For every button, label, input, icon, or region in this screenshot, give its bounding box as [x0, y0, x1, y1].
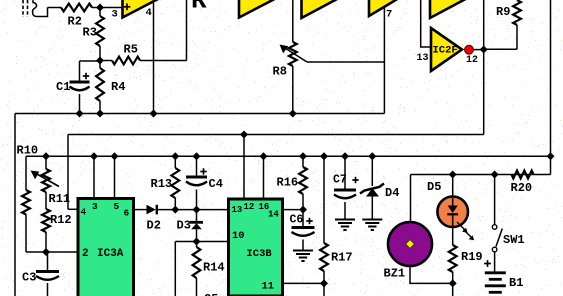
- capacitor C6: [292, 210, 315, 251]
- svg-text:R17: R17: [331, 251, 353, 265]
- node R3-R4-R5 junction: [96, 57, 104, 65]
- label R17: [331, 251, 353, 265]
- plus C1: [83, 73, 89, 79]
- resistor R10: [22, 156, 30, 252]
- node bus3-R13: [171, 152, 179, 160]
- svg-text:2: 2: [82, 248, 89, 260]
- svg-text:R5: R5: [124, 43, 138, 57]
- left rail wire: [14, 114, 16, 296]
- wire row to BZ1: [410, 175, 412, 224]
- label IC3B: [247, 248, 273, 260]
- wire C1 to junction: [80, 60, 101, 62]
- node R12-C3: [42, 248, 50, 256]
- node C4-D3: [193, 206, 201, 214]
- label C5 (cropped): [204, 292, 218, 296]
- node bus3-right rail: [547, 152, 555, 160]
- pin 4 label IC3A: [81, 207, 87, 218]
- svg-text:4: 4: [146, 7, 152, 19]
- pin 2 label IC3A: [82, 248, 89, 260]
- svg-text:IC3B: IC3B: [247, 248, 273, 260]
- svg-text:C5: C5: [204, 292, 218, 296]
- label IC3A: [97, 248, 124, 260]
- bus2 left drop: [67, 135, 69, 210]
- svg-text:7: 7: [386, 9, 392, 21]
- pin 11 label IC3B: [262, 281, 275, 293]
- svg-text:12: 12: [466, 55, 478, 66]
- wire left drop to bottom: [174, 242, 176, 296]
- op-amp IC1A (cropped): [123, 0, 160, 18]
- node R19 bottom: [449, 279, 457, 287]
- svg-text:SW1: SW1: [503, 233, 525, 247]
- wire pin16 stub: [263, 156, 265, 199]
- svg-text:5: 5: [114, 201, 120, 212]
- resistor R17: [320, 156, 328, 283]
- resistor R3: [96, 8, 104, 61]
- node row-D5: [449, 171, 457, 179]
- label R2: [68, 15, 82, 29]
- wire D2 to IC3B pin13: [157, 209, 229, 211]
- svg-text:13: 13: [417, 53, 429, 64]
- label R13: [151, 177, 173, 191]
- pin 12 label IC3B: [244, 202, 255, 212]
- node row-SW1: [491, 171, 499, 179]
- label R14: [203, 261, 225, 275]
- resistor R8 lead: [292, 0, 294, 42]
- svg-text:R12: R12: [50, 213, 72, 227]
- svg-text:10: 10: [232, 230, 245, 242]
- label R12: [50, 213, 72, 227]
- ground C7: [335, 220, 355, 231]
- R11 wiper arrow: [31, 171, 60, 187]
- label D4: [385, 186, 399, 200]
- label R8: [273, 65, 287, 79]
- node bus2-pin12 stub: [240, 131, 248, 139]
- svg-text:R19: R19: [461, 250, 483, 264]
- resistor R20: [512, 171, 534, 179]
- resistor R13: [171, 156, 179, 209]
- resistor R8: [289, 42, 297, 66]
- label R5: [124, 43, 138, 57]
- capacitor C1: [70, 61, 90, 114]
- svg-text:R2: R2: [68, 15, 82, 29]
- output bubble (red): [465, 45, 474, 54]
- wire pin5 stub: [114, 156, 116, 198]
- LED arrows: [457, 222, 474, 240]
- wire bus2 into IC3A pin4: [68, 208, 78, 210]
- wire into IC2F pin13: [421, 0, 431, 47]
- plus B1: [484, 260, 491, 267]
- node R16-C6: [299, 206, 307, 214]
- node C1-bus1: [76, 110, 84, 118]
- wire IC1A output down to bus1: [153, 3, 155, 114]
- resistor R19: [449, 227, 457, 283]
- op-amp IC1D (cropped): [369, 0, 399, 16]
- node bus3-pin5: [111, 152, 119, 160]
- resistor R5: [100, 57, 140, 65]
- node R17-pin11: [320, 279, 328, 287]
- label R3: [83, 26, 97, 40]
- label C3: [22, 271, 36, 285]
- label C7: [333, 174, 347, 187]
- node bus3-C7: [341, 152, 349, 160]
- label C4: [209, 177, 223, 191]
- capacitor C7: [334, 156, 356, 219]
- svg-text:D3: D3: [177, 219, 191, 233]
- label R19: [461, 250, 483, 264]
- capacitor C4: [186, 156, 207, 209]
- wire pin3 stub: [93, 156, 95, 198]
- label D3: [177, 219, 191, 233]
- wire bubble to node: [473, 49, 484, 51]
- pin 16 label IC3B: [259, 202, 270, 212]
- diode D3: [190, 210, 203, 242]
- label SW1: [503, 233, 525, 247]
- pin 5 label IC3A: [114, 201, 120, 212]
- wire mic to R2: [48, 7, 62, 9]
- wire pin14 to node: [283, 209, 304, 211]
- bus3 wire: [26, 155, 551, 157]
- node D3-R14: [193, 238, 201, 246]
- wire IC1D output down: [383, 7, 385, 114]
- resistor R12: [42, 192, 50, 252]
- svg-text:R14: R14: [203, 261, 225, 275]
- wire pin10 row: [175, 241, 228, 243]
- svg-text:4: 4: [81, 207, 87, 218]
- node bus3-C4: [193, 152, 201, 160]
- node bus3-R17: [320, 152, 328, 160]
- wire BZ1 bottom: [410, 266, 453, 283]
- svg-text:R4: R4: [111, 80, 125, 94]
- right rail wire: [550, 0, 552, 175]
- svg-text:R3: R3: [83, 26, 97, 40]
- letter R of cropped title: [191, 0, 207, 16]
- pot R11: [42, 156, 50, 192]
- svg-text:C1: C1: [56, 80, 70, 94]
- label R9: [496, 5, 510, 19]
- svg-text:B1: B1: [509, 276, 523, 290]
- plus C4: [200, 168, 206, 174]
- op-amp IC1B (cropped): [239, 0, 276, 18]
- wire pin6 to D2: [134, 209, 147, 211]
- zener D4: [360, 156, 384, 219]
- node R8-bus1: [289, 110, 297, 118]
- bus1 wire: [15, 113, 384, 115]
- wire SW1 to B1: [494, 252, 496, 272]
- svg-text:12: 12: [244, 202, 255, 212]
- label R4: [111, 80, 125, 94]
- label C1: [56, 80, 70, 94]
- microphone MIC1 (cut off at top): [23, 0, 48, 17]
- node bus3-pin16: [260, 152, 268, 160]
- pin 7 label: [386, 9, 392, 21]
- wire R5 to feedback: [140, 60, 187, 62]
- pin 10 label IC3B: [232, 230, 245, 242]
- label C6: [290, 214, 304, 227]
- node IC2F output: [480, 46, 488, 54]
- inverter IC2F: [431, 28, 462, 71]
- resistor R2: [61, 4, 92, 12]
- pin 6 label IC3A: [124, 208, 130, 219]
- pin 13 label IC3B: [232, 205, 243, 215]
- svg-text:11: 11: [262, 281, 275, 293]
- wire feedback vertical: [186, 0, 188, 61]
- svg-text:D2: D2: [147, 219, 161, 233]
- capacitor C3: [36, 252, 59, 296]
- svg-text:R13: R13: [151, 177, 173, 191]
- label B1: [509, 276, 523, 290]
- resistor R14: [193, 242, 201, 296]
- svg-text:R10: R10: [17, 144, 39, 158]
- svg-text:R20: R20: [511, 181, 533, 195]
- wire R8 to bus1: [292, 66, 294, 114]
- svg-text:R8: R8: [273, 65, 287, 79]
- battery B1: [485, 273, 506, 293]
- ground D4: [362, 220, 382, 231]
- label R11: [49, 192, 71, 206]
- resistor R9: [513, 0, 521, 49]
- wire supply row: [411, 174, 551, 176]
- svg-text:D5: D5: [427, 180, 441, 194]
- IC IC3A: [78, 199, 134, 296]
- buzzer BZ1: [388, 222, 432, 266]
- svg-text:BZ1: BZ1: [384, 267, 406, 281]
- wire row to SW1: [494, 175, 496, 225]
- node bus3-D4: [368, 152, 376, 160]
- resistor R16: [299, 156, 307, 209]
- pin 14 label IC3B: [268, 210, 279, 220]
- resistor R4: [96, 61, 104, 114]
- label D2: [147, 219, 161, 233]
- label R10: [17, 144, 39, 158]
- wire R8 wiper to IC1D output: [307, 61, 384, 63]
- svg-text:6: 6: [124, 208, 130, 219]
- svg-text:R16: R16: [277, 176, 299, 190]
- pin 13 label: [417, 53, 429, 64]
- wire node row pin2: [26, 251, 78, 253]
- node bus3-R11: [42, 152, 50, 160]
- node R4-bus1: [96, 110, 104, 118]
- op-amp IC2E (cropped): [430, 0, 467, 18]
- node bus3-R16: [299, 152, 307, 160]
- pin 3 label IC3A: [92, 201, 98, 212]
- BZ1 center dot: [406, 240, 415, 249]
- svg-text:C7: C7: [333, 174, 347, 187]
- svg-text:D4: D4: [385, 186, 399, 200]
- IC IC3B: [229, 199, 283, 296]
- svg-text:3: 3: [112, 9, 118, 21]
- bus2 wire: [68, 134, 484, 136]
- svg-text:14: 14: [268, 210, 279, 220]
- pin 12 label: [466, 55, 478, 66]
- wire R2 to opamp pin3: [92, 7, 123, 9]
- LED D5: [437, 197, 468, 228]
- label R20: [511, 181, 533, 195]
- svg-text:R11: R11: [49, 192, 71, 206]
- label D5: [427, 180, 441, 194]
- svg-text:R: R: [191, 0, 207, 16]
- svg-text:C3: C3: [22, 271, 36, 285]
- switch SW1: [492, 225, 502, 252]
- wire pin12 stub: [243, 135, 245, 200]
- svg-text:IC2F: IC2F: [433, 45, 458, 57]
- plus sign IC1A: [124, 3, 131, 10]
- wire IC2F node vertical: [483, 0, 485, 135]
- svg-text:IC3A: IC3A: [97, 248, 124, 260]
- svg-text:13: 13: [232, 205, 243, 215]
- R8 wiper arrow: [280, 45, 308, 63]
- svg-text:C6: C6: [290, 214, 304, 227]
- node A junction: [96, 4, 104, 12]
- label BZ1: [384, 267, 406, 281]
- svg-text:3: 3: [92, 201, 98, 212]
- pin 4 label: [146, 7, 152, 19]
- wire pin11 row: [283, 282, 325, 284]
- label IC2F: [433, 45, 458, 57]
- pin 3 label: [112, 9, 118, 21]
- plus C6: [306, 218, 312, 224]
- op-amp IC1C (cropped): [302, 0, 339, 18]
- wire row to D5: [452, 175, 454, 198]
- ground C6: [293, 251, 313, 262]
- D5 diode symbol: [447, 198, 458, 226]
- svg-text:R9: R9: [496, 5, 510, 19]
- plus C7: [352, 177, 358, 183]
- wire below R19 node: [452, 283, 454, 296]
- diode D2: [147, 205, 157, 215]
- node bus3-pin3: [90, 152, 98, 160]
- wire below node: [323, 283, 325, 296]
- node IC1A out-bus1: [150, 110, 158, 118]
- label R16: [277, 176, 299, 190]
- wire R9 to IC2F node: [484, 48, 517, 50]
- node R13-D2 wire: [171, 206, 179, 214]
- svg-text:C4: C4: [209, 177, 223, 191]
